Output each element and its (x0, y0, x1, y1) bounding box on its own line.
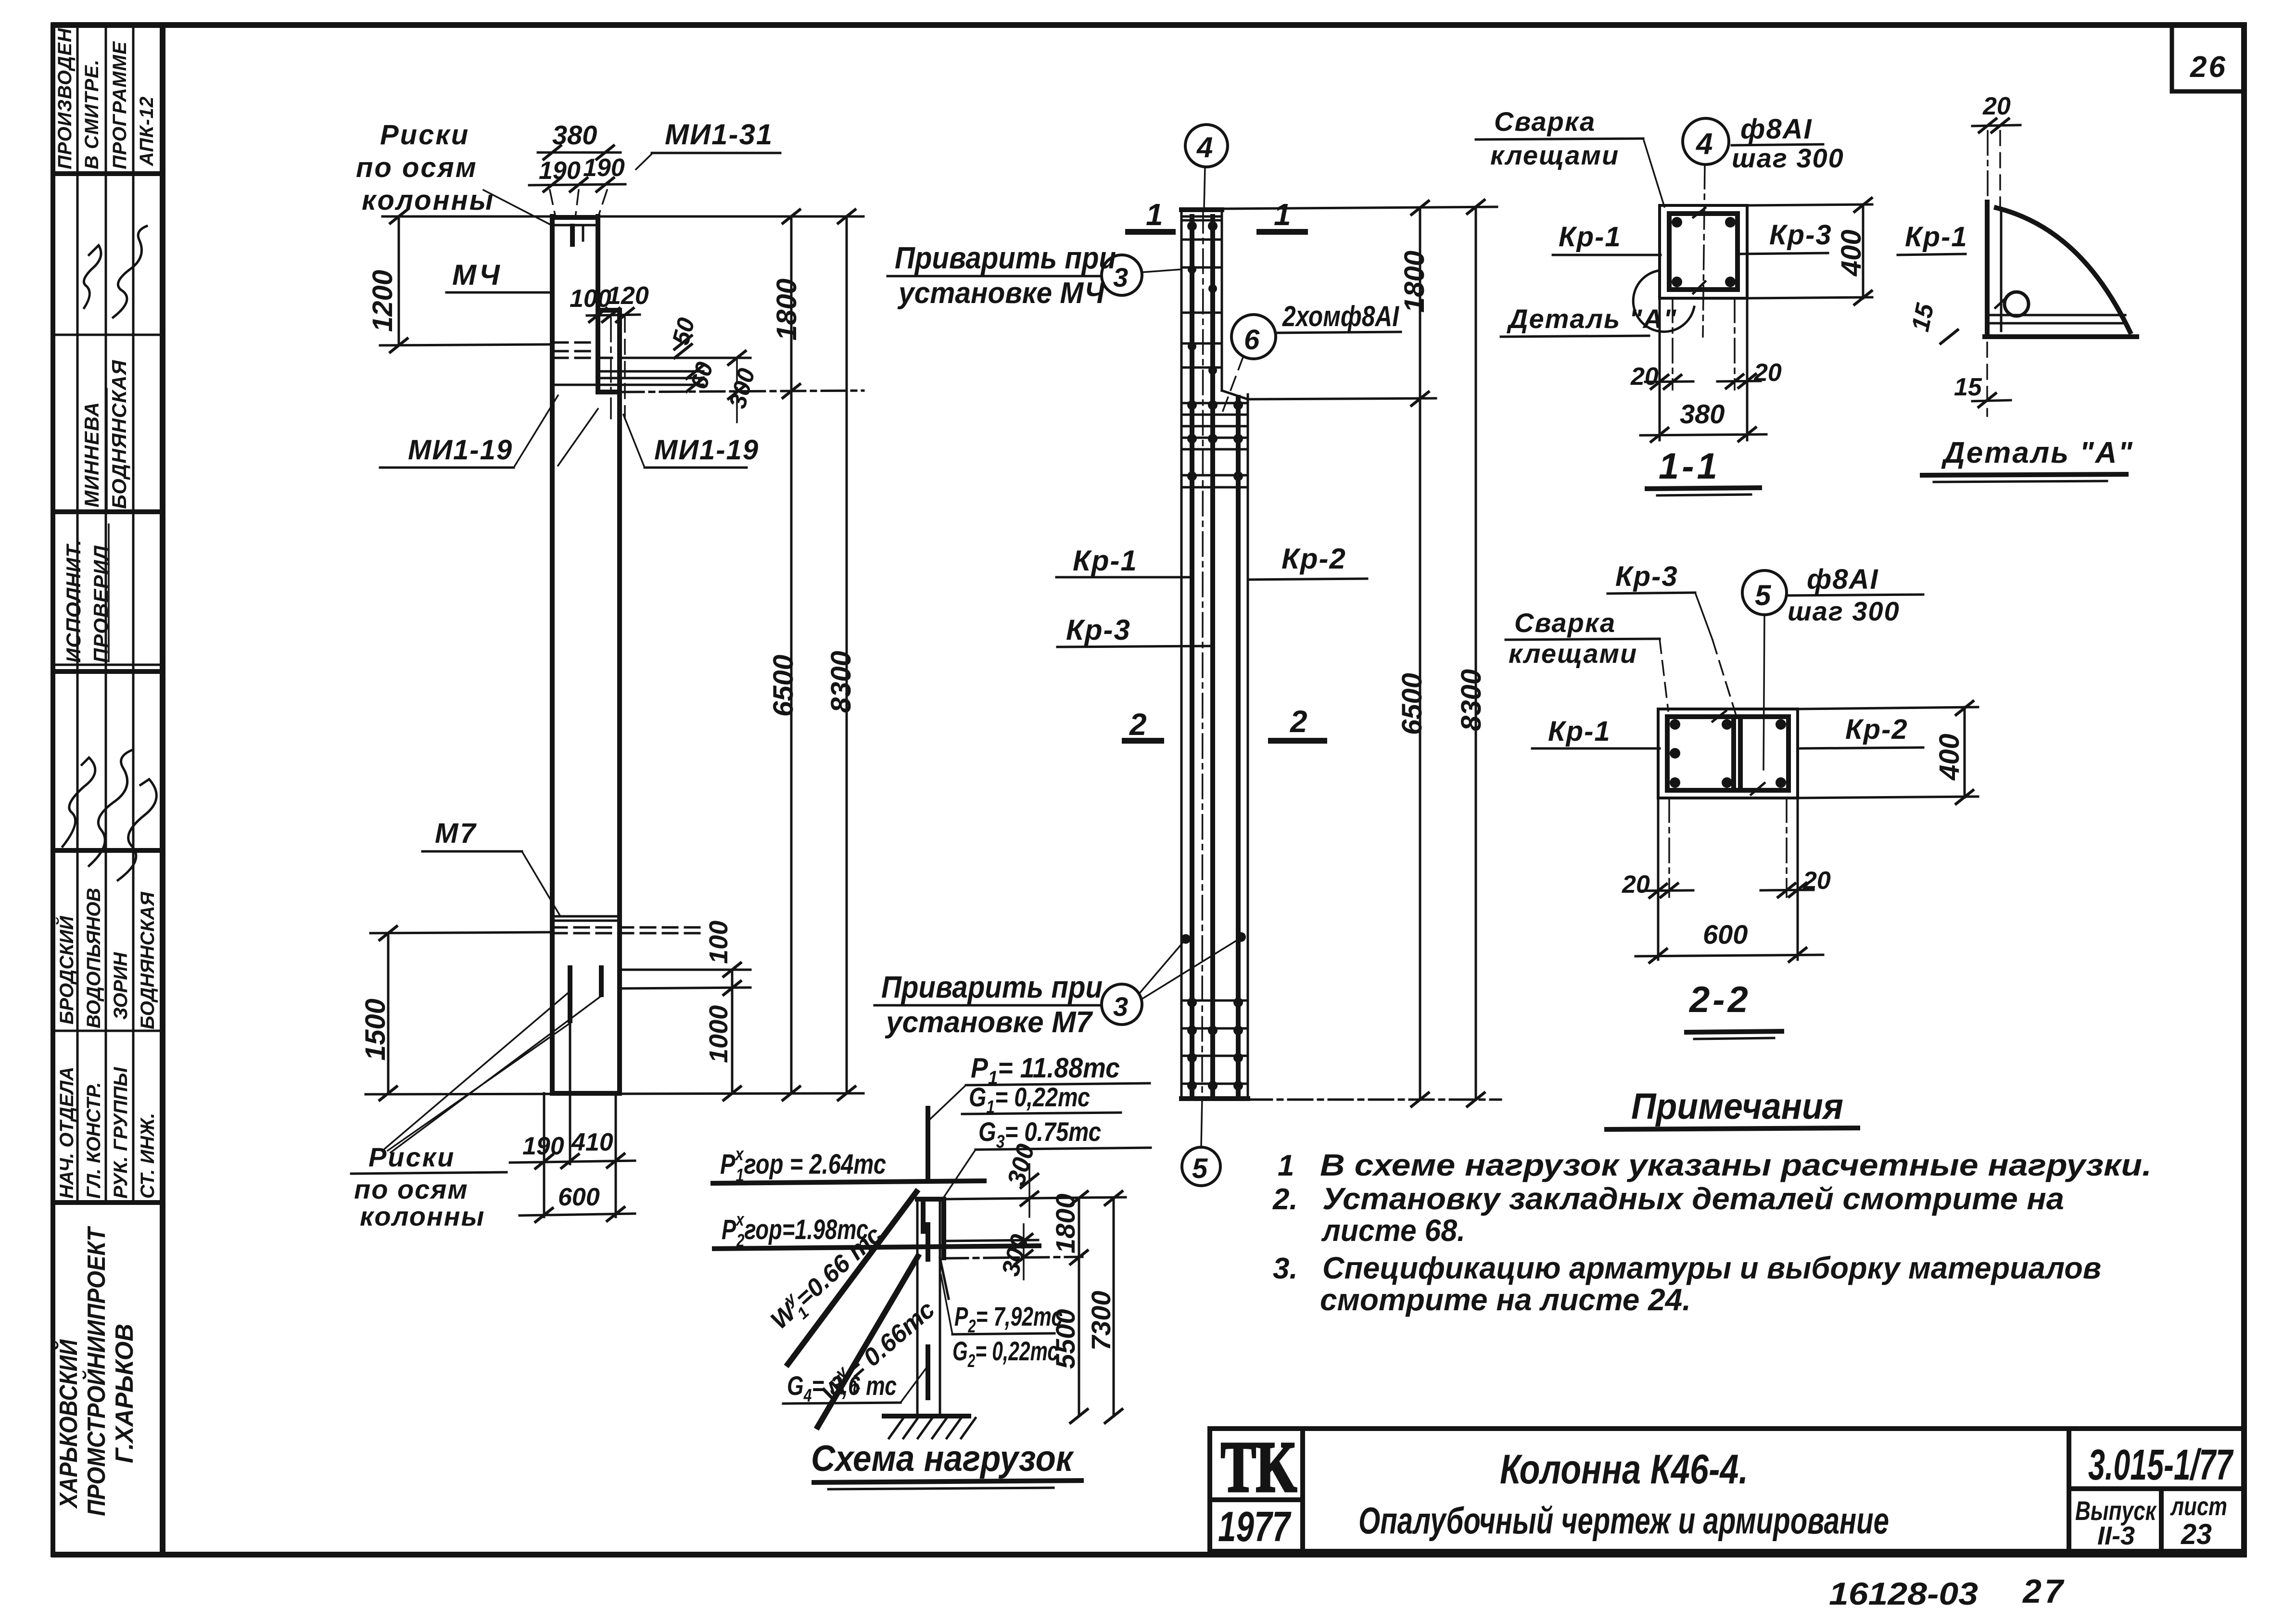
svg-text:G4= 3,6 тс: G4= 3,6 тс (787, 1370, 897, 1406)
svg-text:МИ1-19: МИ1-19 (654, 434, 759, 466)
right dims: top extension (1222, 207, 1497, 209)
dense stirrups at step (1182, 402, 1247, 405)
svg-text:клещами: клещами (1509, 638, 1637, 669)
column top post (926, 1108, 930, 1144)
svg-text:8300: 8300 (1456, 669, 1487, 731)
projection dashed lines (1987, 131, 1989, 212)
svg-text:шаг 300: шаг 300 (1732, 143, 1844, 173)
svg-text:1800: 1800 (1399, 251, 1430, 313)
position circle 3 (top) (1102, 255, 1142, 295)
axis from circle through section (1703, 165, 1705, 337)
svg-text:600: 600 (1703, 919, 1748, 950)
svg-text:Риски: Риски (380, 119, 469, 151)
SECTION22 (1506, 561, 1978, 1039)
column bottom (552, 1091, 620, 1096)
projection verticals (543, 1093, 545, 1217)
svg-text:Опалубочный чертеж и армирован: Опалубочный чертеж и армирование (1358, 1499, 1889, 1542)
dim line 1800/5500 (1078, 1198, 1080, 1416)
svg-text:установке М7: установке М7 (885, 1006, 1093, 1039)
svg-text:МИ1-31: МИ1-31 (665, 118, 773, 151)
МЧ plate dashed lines (553, 342, 598, 344)
svg-text:колонны: колонны (362, 185, 495, 216)
column center axis (1202, 209, 1203, 1099)
dim line 7300 (1113, 1198, 1115, 1416)
position circle 4 (top) (1185, 125, 1228, 167)
section 2-2 outer box (1658, 709, 1798, 798)
svg-text:8300: 8300 (825, 651, 857, 713)
svg-text:ИСПОЛНИТ.: ИСПОЛНИТ. (62, 539, 85, 663)
svg-text:Кр-1: Кр-1 (1073, 544, 1138, 577)
svg-text:ВОДОПЬЯНОВ: ВОДОПЬЯНОВ (83, 888, 104, 1028)
svg-text:2: 2 (1290, 704, 1307, 739)
LOADSCHEME (713, 1052, 1151, 1489)
svg-text:ф8АI: ф8АI (1740, 114, 1813, 145)
svg-text:МИННЕВА: МИННЕВА (80, 402, 103, 507)
step extension (1248, 398, 1436, 399)
dashed projection for 20s (1659, 298, 1661, 440)
rebar dots (1670, 719, 1680, 730)
right side dims: top extension (598, 215, 863, 218)
svg-text:клещами: клещами (1490, 140, 1619, 170)
svg-text:1977: 1977 (1218, 1503, 1292, 1550)
hook tick (1995, 294, 2010, 308)
weld dots at lower leaders (1181, 934, 1191, 944)
rebar dots (1672, 217, 1682, 228)
svg-text:Px1гор = 2.64тс: Px1гор = 2.64тс (720, 1144, 886, 1186)
svg-text:400: 400 (1934, 734, 1965, 781)
rebar circle (2004, 292, 2029, 316)
sheet right border (2241, 25, 2247, 1555)
svg-text:1200: 1200 (367, 270, 398, 332)
svg-text:1800: 1800 (1050, 1193, 1080, 1253)
stamp column dividers (76, 25, 79, 1203)
column right edge upper (1221, 209, 1223, 391)
axis dash-dot to column (1204, 167, 1205, 209)
svg-text:по осям: по осям (354, 1174, 469, 1204)
svg-text:1800: 1800 (771, 279, 802, 341)
svg-text:Установку закладных деталей см: Установку закладных деталей смотрите на (1322, 1181, 2064, 1216)
svg-text:Кр-2: Кр-2 (1845, 714, 1908, 745)
sheet top border (54, 22, 2244, 28)
svg-text:БОДНЯНСКАЯ: БОДНЯНСКАЯ (108, 360, 130, 509)
svg-text:27: 27 (2022, 1572, 2066, 1608)
sheet number box 26 (2172, 25, 2244, 91)
position circle 3 (bottom) (1102, 984, 1142, 1025)
wind diagonal W2 (818, 1256, 918, 1427)
svg-text:В СМИТРЕ.: В СМИТРЕ. (81, 59, 102, 169)
level line at console top (944, 1240, 1038, 1241)
scheme column body (916, 1199, 919, 1416)
svg-text:Приварить при: Приварить при (895, 241, 1116, 275)
svg-text:ГЛ. КОНСТР.: ГЛ. КОНСТР. (83, 1082, 104, 1199)
MIDDLEDRAWING (875, 125, 1501, 1186)
svg-text:Г.ХАРЬКОВ: Г.ХАРЬКОВ (111, 1324, 139, 1463)
leader from label to column top (483, 190, 553, 226)
svg-text:Кр-1: Кр-1 (1548, 716, 1611, 747)
signature scribbles band 1 (84, 245, 101, 308)
svg-text:НАЧ. ОТДЕЛА: НАЧ. ОТДЕЛА (56, 1067, 77, 1199)
console bottom edge (598, 390, 620, 394)
svg-text:16128-03: 16128-03 (1829, 1576, 1978, 1608)
position circle 5 (1742, 570, 1787, 615)
svg-text:5: 5 (1755, 579, 1772, 611)
sheet bottom border (54, 1552, 2244, 1557)
console edge (941, 1199, 946, 1258)
svg-text:МЧ: МЧ (452, 259, 502, 291)
svg-text:6: 6 (1244, 324, 1260, 355)
svg-text:120: 120 (607, 282, 649, 310)
DETAILA (1898, 92, 2137, 482)
svg-text:Сварка: Сварка (1514, 608, 1616, 638)
svg-text:Приварить при: Приварить при (881, 970, 1103, 1004)
svg-text:Кр-2: Кр-2 (1281, 543, 1346, 575)
dim 100 (bottom right of column) (620, 969, 750, 971)
svg-text:TK: TK (1221, 1427, 1297, 1507)
dim line 8300 (846, 216, 848, 1093)
svg-text:В схеме нагрузок указаны расче: В схеме нагрузок указаны расчетные нагру… (1320, 1148, 2152, 1182)
svg-text:по осям: по осям (356, 152, 478, 183)
svg-text:Деталь "А": Деталь "А" (1941, 436, 2134, 469)
sheet left border (frame) (160, 25, 165, 1555)
svg-text:Кр-1: Кр-1 (1905, 221, 1968, 253)
stamp outer left edge (51, 25, 55, 1555)
svg-text:20: 20 (1622, 871, 1650, 899)
svg-text:РУК. ГРУППЫ: РУК. ГРУППЫ (110, 1067, 131, 1199)
svg-text:3.015-1/77: 3.015-1/77 (2088, 1441, 2234, 1489)
level dash line at console bottom (944, 1257, 1082, 1258)
dim line 8300 (1475, 207, 1477, 1100)
svg-text:190: 190 (583, 154, 625, 182)
svg-text:Спецификацию арматуры и выборк: Спецификацию арматуры и выборку материал… (1322, 1251, 2101, 1285)
console projection dashed verticals (610, 317, 612, 418)
svg-text:410: 410 (571, 1128, 613, 1156)
svg-text:4: 4 (1196, 131, 1213, 164)
title block outer box (1210, 1429, 2244, 1551)
detail A arc (1633, 271, 1694, 332)
ground hatch (889, 1418, 903, 1438)
svg-text:Кр-3: Кр-3 (1066, 614, 1131, 646)
svg-text:шаг 300: шаг 300 (1788, 596, 1900, 626)
step to wider lower part (1222, 391, 1248, 399)
stirrup inner box (1667, 717, 1789, 790)
corner chamfer curve (1996, 208, 2130, 332)
TITLEBLOCK (1210, 1427, 2244, 1551)
svg-text:2-2: 2-2 (1688, 979, 1751, 1020)
svg-text:Примечания: Примечания (1631, 1086, 1843, 1127)
svg-text:АПК-12: АПК-12 (136, 96, 157, 166)
column left edge (1180, 209, 1183, 1099)
svg-text:Кр-3: Кр-3 (1769, 219, 1832, 251)
svg-text:2: 2 (1129, 707, 1147, 742)
М7 plate lines (552, 915, 620, 918)
axis risk ticks at top (570, 226, 575, 244)
middle stirrup pair (1731, 717, 1736, 790)
svg-text:3: 3 (1113, 262, 1128, 292)
console / lower column right face (617, 310, 622, 1093)
svg-text:20: 20 (1753, 359, 1782, 387)
svg-text:колонны: колонны (360, 1201, 485, 1231)
svg-text:1: 1 (1278, 1149, 1294, 1182)
rebar vertical (2000, 209, 2003, 331)
stamp row lines (53, 171, 163, 176)
dim line 190/190 (529, 184, 625, 185)
series cell divider (2067, 1429, 2071, 1551)
svg-text:1500: 1500 (360, 999, 391, 1061)
svg-text:БРОДСКИЙ: БРОДСКИЙ (55, 915, 77, 1025)
svg-text:СТ. ИНЖ.: СТ. ИНЖ. (137, 1113, 158, 1199)
svg-text:лист: лист (2170, 1492, 2227, 1521)
svg-text:5: 5 (1192, 1153, 1208, 1184)
svg-text:Деталь "А": Деталь "А" (1507, 304, 1677, 334)
console bottom extension (620, 391, 863, 392)
column top extension to dims (944, 1197, 1126, 1199)
dim line 600 (520, 1214, 635, 1215)
NOTES (1272, 1086, 2152, 1317)
dim 400 (1798, 707, 1978, 709)
svg-text:ПРОГРАММЕ: ПРОГРАММЕ (109, 41, 130, 169)
embedded plate marks (926, 1225, 930, 1259)
svg-text:Схема нагрузок: Схема нагрузок (811, 1438, 1074, 1479)
dim 1200 (left) (398, 216, 400, 345)
dim line 190/410 (510, 1161, 635, 1163)
svg-text:ф8АI: ф8АI (1807, 564, 1879, 595)
left face (1985, 202, 1990, 337)
svg-text:М7: М7 (435, 818, 478, 849)
svg-text:установке МЧ: установке МЧ (897, 277, 1105, 310)
bottom plate lines (1990, 314, 2125, 317)
svg-text:листе 68.: листе 68. (1321, 1213, 1465, 1248)
column bottom (1181, 1096, 1248, 1101)
svg-text:6500: 6500 (768, 655, 799, 717)
svg-text:МИ1-19: МИ1-19 (408, 434, 513, 466)
stirrup pair below step (1182, 474, 1247, 477)
projection dashes to column top (550, 190, 556, 217)
position circle 4 (1683, 118, 1729, 165)
svg-text:БОДНЯНСКАЯ: БОДНЯНСКАЯ (137, 891, 158, 1029)
svg-text:Кр-3: Кр-3 (1615, 561, 1678, 592)
svg-text:II-3: II-3 (2097, 1521, 2135, 1550)
stirrup hooks (1693, 208, 1705, 217)
svg-text:1: 1 (1146, 197, 1163, 232)
svg-text:4: 4 (1695, 127, 1712, 161)
svg-text:Кр-1: Кр-1 (1559, 221, 1622, 253)
column top cap (1181, 207, 1222, 212)
svg-text:1000: 1000 (704, 1005, 733, 1063)
section 1-1 outer box (1660, 205, 1747, 298)
svg-text:ЗОРИН: ЗОРИН (110, 952, 131, 1020)
weld dots upper (1187, 221, 1197, 231)
bottom axis risks (568, 968, 572, 1021)
МИ1-19 plate lines on console (598, 370, 703, 373)
svg-text:ХАРЬКОВСКИЙ: ХАРЬКОВСКИЙ (54, 1339, 83, 1509)
column top cap (МИ1-31 plate) (552, 215, 598, 220)
projection lines for 20 (1657, 798, 1660, 960)
svg-text:23: 23 (2181, 1518, 2212, 1550)
dim line 100/120 (587, 315, 640, 316)
column outline: left edge (550, 216, 555, 1093)
column right edge lower (1247, 394, 1249, 1099)
svg-text:3.: 3. (1273, 1252, 1298, 1285)
svg-text:ПРОМСТРОЙНИИПРОЕКТ: ПРОМСТРОЙНИИПРОЕКТ (82, 1226, 111, 1516)
hooks (1712, 711, 1726, 722)
svg-text:Риски: Риски (368, 1142, 455, 1172)
dim 400 (1747, 204, 1872, 205)
upper right edge (596, 216, 600, 392)
wind diagonal W1 (788, 1192, 916, 1364)
svg-text:1-1: 1-1 (1659, 446, 1720, 487)
risk leader lines to bottom label (385, 993, 568, 1149)
base stirrups (1182, 1000, 1247, 1002)
dim 1500 (387, 933, 390, 1093)
svg-text:1: 1 (1274, 197, 1291, 232)
position circle 6 (1231, 315, 1276, 359)
svg-text:ПРОИЗВОДЕН: ПРОИЗВОДЕН (54, 28, 76, 169)
diagonal leader inside column (558, 409, 598, 466)
bottom extension line (366, 1093, 863, 1094)
svg-text:3: 3 (1113, 991, 1128, 1022)
ground line (884, 1414, 969, 1418)
svg-text:400: 400 (1836, 229, 1867, 277)
console top (598, 308, 620, 313)
TK logo cell divider (1300, 1429, 1305, 1551)
stirrup (inner box, heavy) (1669, 214, 1738, 290)
svg-text:Колонна К46-4.: Колонна К46-4. (1500, 1446, 1748, 1493)
extension to 1500 dim (370, 932, 552, 933)
signature scribbles band 2 (63, 758, 95, 847)
LEFTDRAWING (351, 118, 863, 1231)
dim line 1800/6500 (790, 216, 793, 1093)
dim line 380 (538, 152, 621, 154)
svg-text:600: 600 (558, 1183, 600, 1211)
dim line 1800/6500 (1419, 208, 1421, 1100)
stirrups upper (1182, 219, 1221, 222)
svg-text:Сварка: Сварка (1494, 106, 1596, 137)
svg-text:26: 26 (2190, 51, 2227, 84)
svg-text:100: 100 (704, 921, 733, 964)
svg-text:смотрите на листе 24.: смотрите на листе 24. (1320, 1282, 1691, 1317)
STAMP (53, 25, 163, 1555)
SECTION11 (1476, 106, 1873, 495)
position circle 5 (bottom) (1182, 1147, 1220, 1186)
rebar bars (heavy verticals) (1190, 216, 1194, 1097)
svg-text:15: 15 (1954, 373, 1982, 401)
svg-text:2.: 2. (1272, 1183, 1298, 1216)
svg-text:6500: 6500 (1396, 673, 1428, 735)
svg-text:7300: 7300 (1086, 1291, 1116, 1351)
svg-text:2хомф8АI: 2хомф8АI (1282, 300, 1399, 332)
leaders to weld dots (1139, 941, 1184, 994)
bottom extension (dash-dot) (1248, 1099, 1501, 1101)
svg-text:20: 20 (1982, 92, 2011, 120)
svg-text:380: 380 (1680, 399, 1725, 429)
